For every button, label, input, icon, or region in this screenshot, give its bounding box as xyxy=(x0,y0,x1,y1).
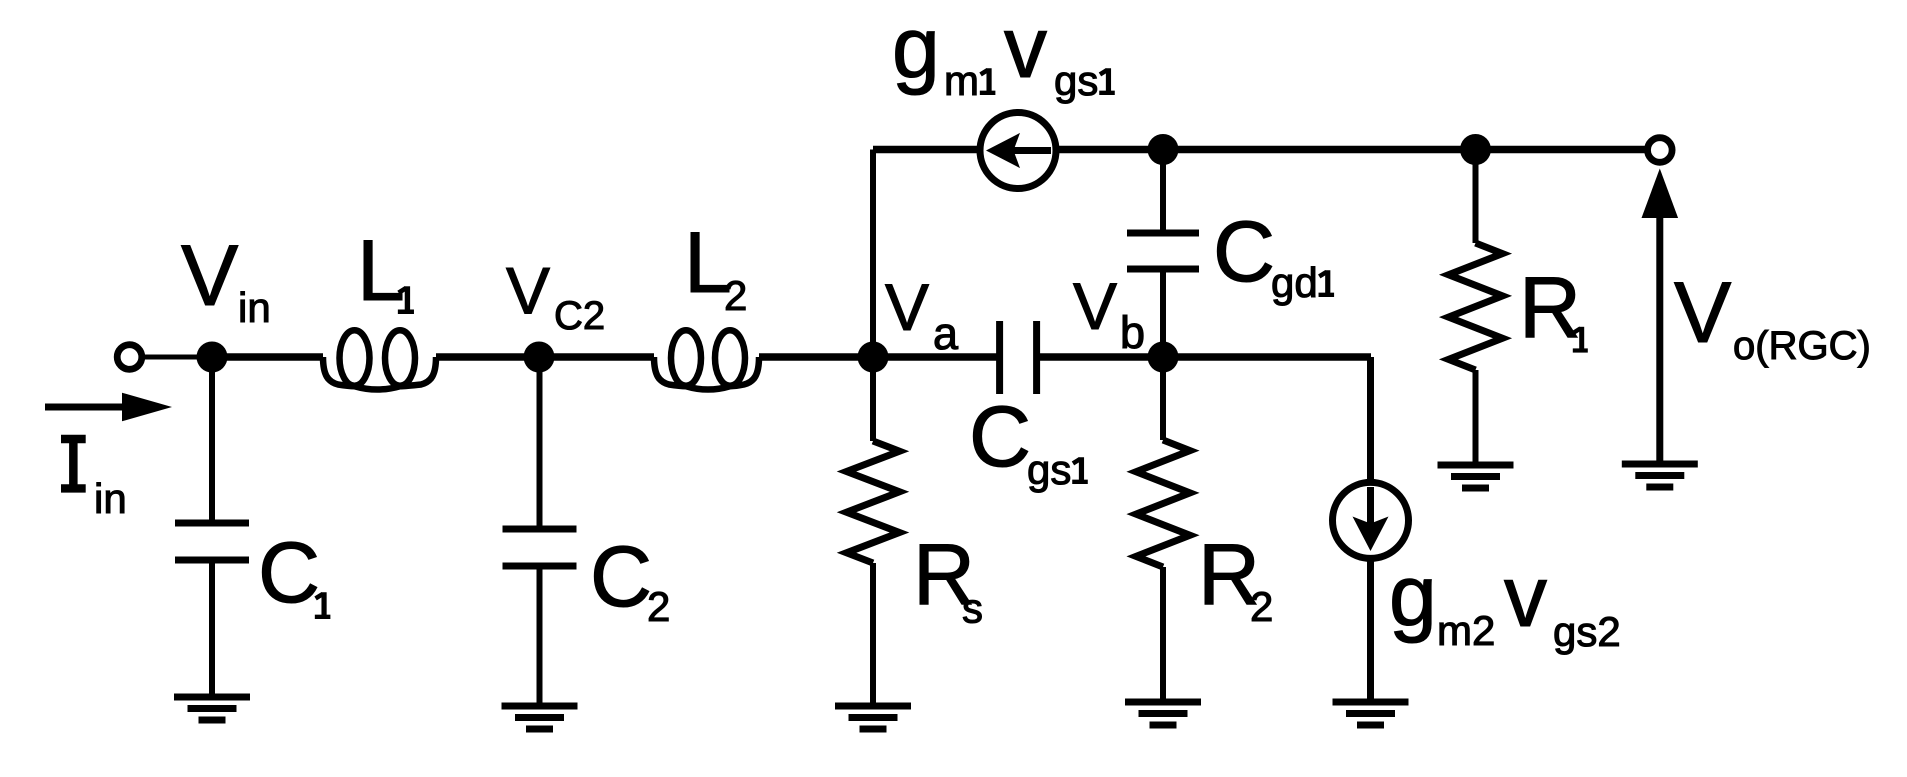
svg-text:C2: C2 xyxy=(554,294,605,338)
svg-text:C: C xyxy=(590,529,652,625)
svg-text:m: m xyxy=(944,57,979,104)
svg-text:V: V xyxy=(885,270,929,344)
svg-text:V: V xyxy=(506,254,550,328)
svg-text:m2: m2 xyxy=(1437,607,1495,654)
svg-text:gs2: gs2 xyxy=(1553,608,1621,655)
svg-text:gs: gs xyxy=(1054,57,1098,104)
svg-text:C: C xyxy=(1213,204,1275,300)
svg-text:v: v xyxy=(1004,0,1047,96)
svg-text:g: g xyxy=(1389,548,1437,644)
svg-text:in: in xyxy=(238,284,271,331)
svg-text:C: C xyxy=(258,525,320,621)
svg-text:o(RGC): o(RGC) xyxy=(1733,324,1871,368)
svg-text:V: V xyxy=(1674,265,1731,361)
svg-text:gd: gd xyxy=(1271,259,1318,306)
svg-text:2: 2 xyxy=(1250,583,1273,630)
svg-text:L: L xyxy=(357,223,405,319)
svg-text:a: a xyxy=(933,308,959,359)
svg-text:2: 2 xyxy=(647,583,670,630)
svg-text:V: V xyxy=(1073,269,1117,343)
svg-text:2: 2 xyxy=(724,272,747,319)
svg-text:v: v xyxy=(1504,549,1547,645)
svg-text:C: C xyxy=(969,389,1031,485)
svg-text:gs: gs xyxy=(1027,446,1071,493)
svg-text:s: s xyxy=(962,585,983,632)
svg-text:V: V xyxy=(181,228,238,324)
svg-text:R: R xyxy=(1519,260,1581,356)
svg-text:in: in xyxy=(94,475,127,522)
svg-text:b: b xyxy=(1120,307,1145,358)
svg-text:g: g xyxy=(892,0,940,96)
